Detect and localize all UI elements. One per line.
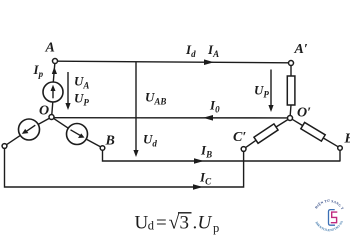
wire I_B rail B to B': [103, 150, 341, 161]
svg-text:A: A: [45, 41, 55, 56]
wire line A to A': [58, 61, 289, 63]
node C terminal: [2, 144, 7, 149]
formula U_d = sqrt(3) U_p: [135, 212, 220, 236]
svg-text:IA: IA: [207, 42, 219, 59]
wire top source to O: [52, 102, 53, 115]
node O: [49, 115, 54, 120]
wire neutral O to O': [54, 117, 288, 119]
node C': [241, 147, 246, 152]
arrow U_P right voltage: [268, 70, 273, 113]
wire A node to top source: [53, 64, 55, 82]
logo bracket: [329, 210, 336, 226]
svg-text:UAB: UAB: [145, 90, 166, 107]
source G2 (phase C): [19, 119, 40, 140]
wire resistor R1 to O': [289, 105, 292, 116]
svg-text:=: =: [156, 213, 167, 234]
arrow I_p on wire: [52, 67, 57, 74]
svg-text:UP: UP: [254, 83, 269, 100]
wire O' to resistor R2: [276, 120, 288, 128]
arrow U_A/U_P voltage: [65, 72, 70, 110]
wire resistor R2 to C': [246, 140, 256, 147]
wire I_C rail C to C': [5, 149, 244, 187]
arrow inside G2: [22, 125, 36, 134]
svg-text:B′: B′: [344, 132, 350, 147]
wire O to lower-left source: [38, 118, 49, 124]
svg-text:Ud: Ud: [143, 132, 157, 149]
wire O to lower-right source: [54, 118, 69, 128]
node A: [53, 59, 58, 64]
arrow I_d right: [204, 59, 214, 65]
arrow I_C right: [193, 184, 203, 190]
svg-text:A′: A′: [294, 42, 308, 57]
svg-text:IC: IC: [199, 170, 212, 187]
svg-text:C′: C′: [233, 130, 246, 145]
wire lower-left source to terminal C: [7, 135, 21, 144]
svg-text:p: p: [213, 221, 219, 235]
node O': [288, 116, 293, 121]
arrow inside G3: [71, 130, 85, 138]
source G3 (phase B): [67, 124, 88, 145]
svg-text:U: U: [135, 213, 149, 234]
arrow I_B right: [194, 158, 204, 164]
svg-text:3: 3: [180, 213, 190, 234]
svg-text:O′: O′: [297, 106, 311, 121]
arrow inside G1: [51, 85, 56, 99]
wire O' to resistor R3: [292, 119, 303, 125]
wire resistor R3 to B': [323, 138, 338, 147]
svg-text:B: B: [105, 134, 115, 149]
logo E glyph: [331, 212, 338, 223]
node B: [100, 146, 105, 151]
svg-text:√: √: [169, 212, 180, 234]
svg-text:U: U: [198, 213, 213, 234]
svg-text:IB: IB: [200, 143, 212, 160]
resistor R3 (O'-B'): [301, 122, 325, 141]
resistor R2 (O'-C'): [254, 124, 278, 143]
wire lower-right source to B: [86, 139, 100, 147]
wire A' to resistor R1: [290, 66, 292, 76]
svg-text:d: d: [148, 219, 155, 233]
resistor R1 (A'-O'): [287, 76, 295, 105]
arrow I_0 left: [203, 115, 213, 121]
svg-text:Id: Id: [185, 42, 196, 59]
svg-text:I0: I0: [209, 98, 220, 115]
arrow U_AB/U_d voltage: [133, 62, 138, 157]
svg-text:Ip: Ip: [33, 62, 44, 79]
svg-text:O: O: [39, 104, 49, 119]
svg-text:UA: UA: [74, 74, 89, 91]
svg-text:UP: UP: [74, 91, 89, 108]
node A': [289, 61, 294, 66]
source G1 (phase A): [43, 82, 63, 102]
node B': [338, 146, 343, 151]
